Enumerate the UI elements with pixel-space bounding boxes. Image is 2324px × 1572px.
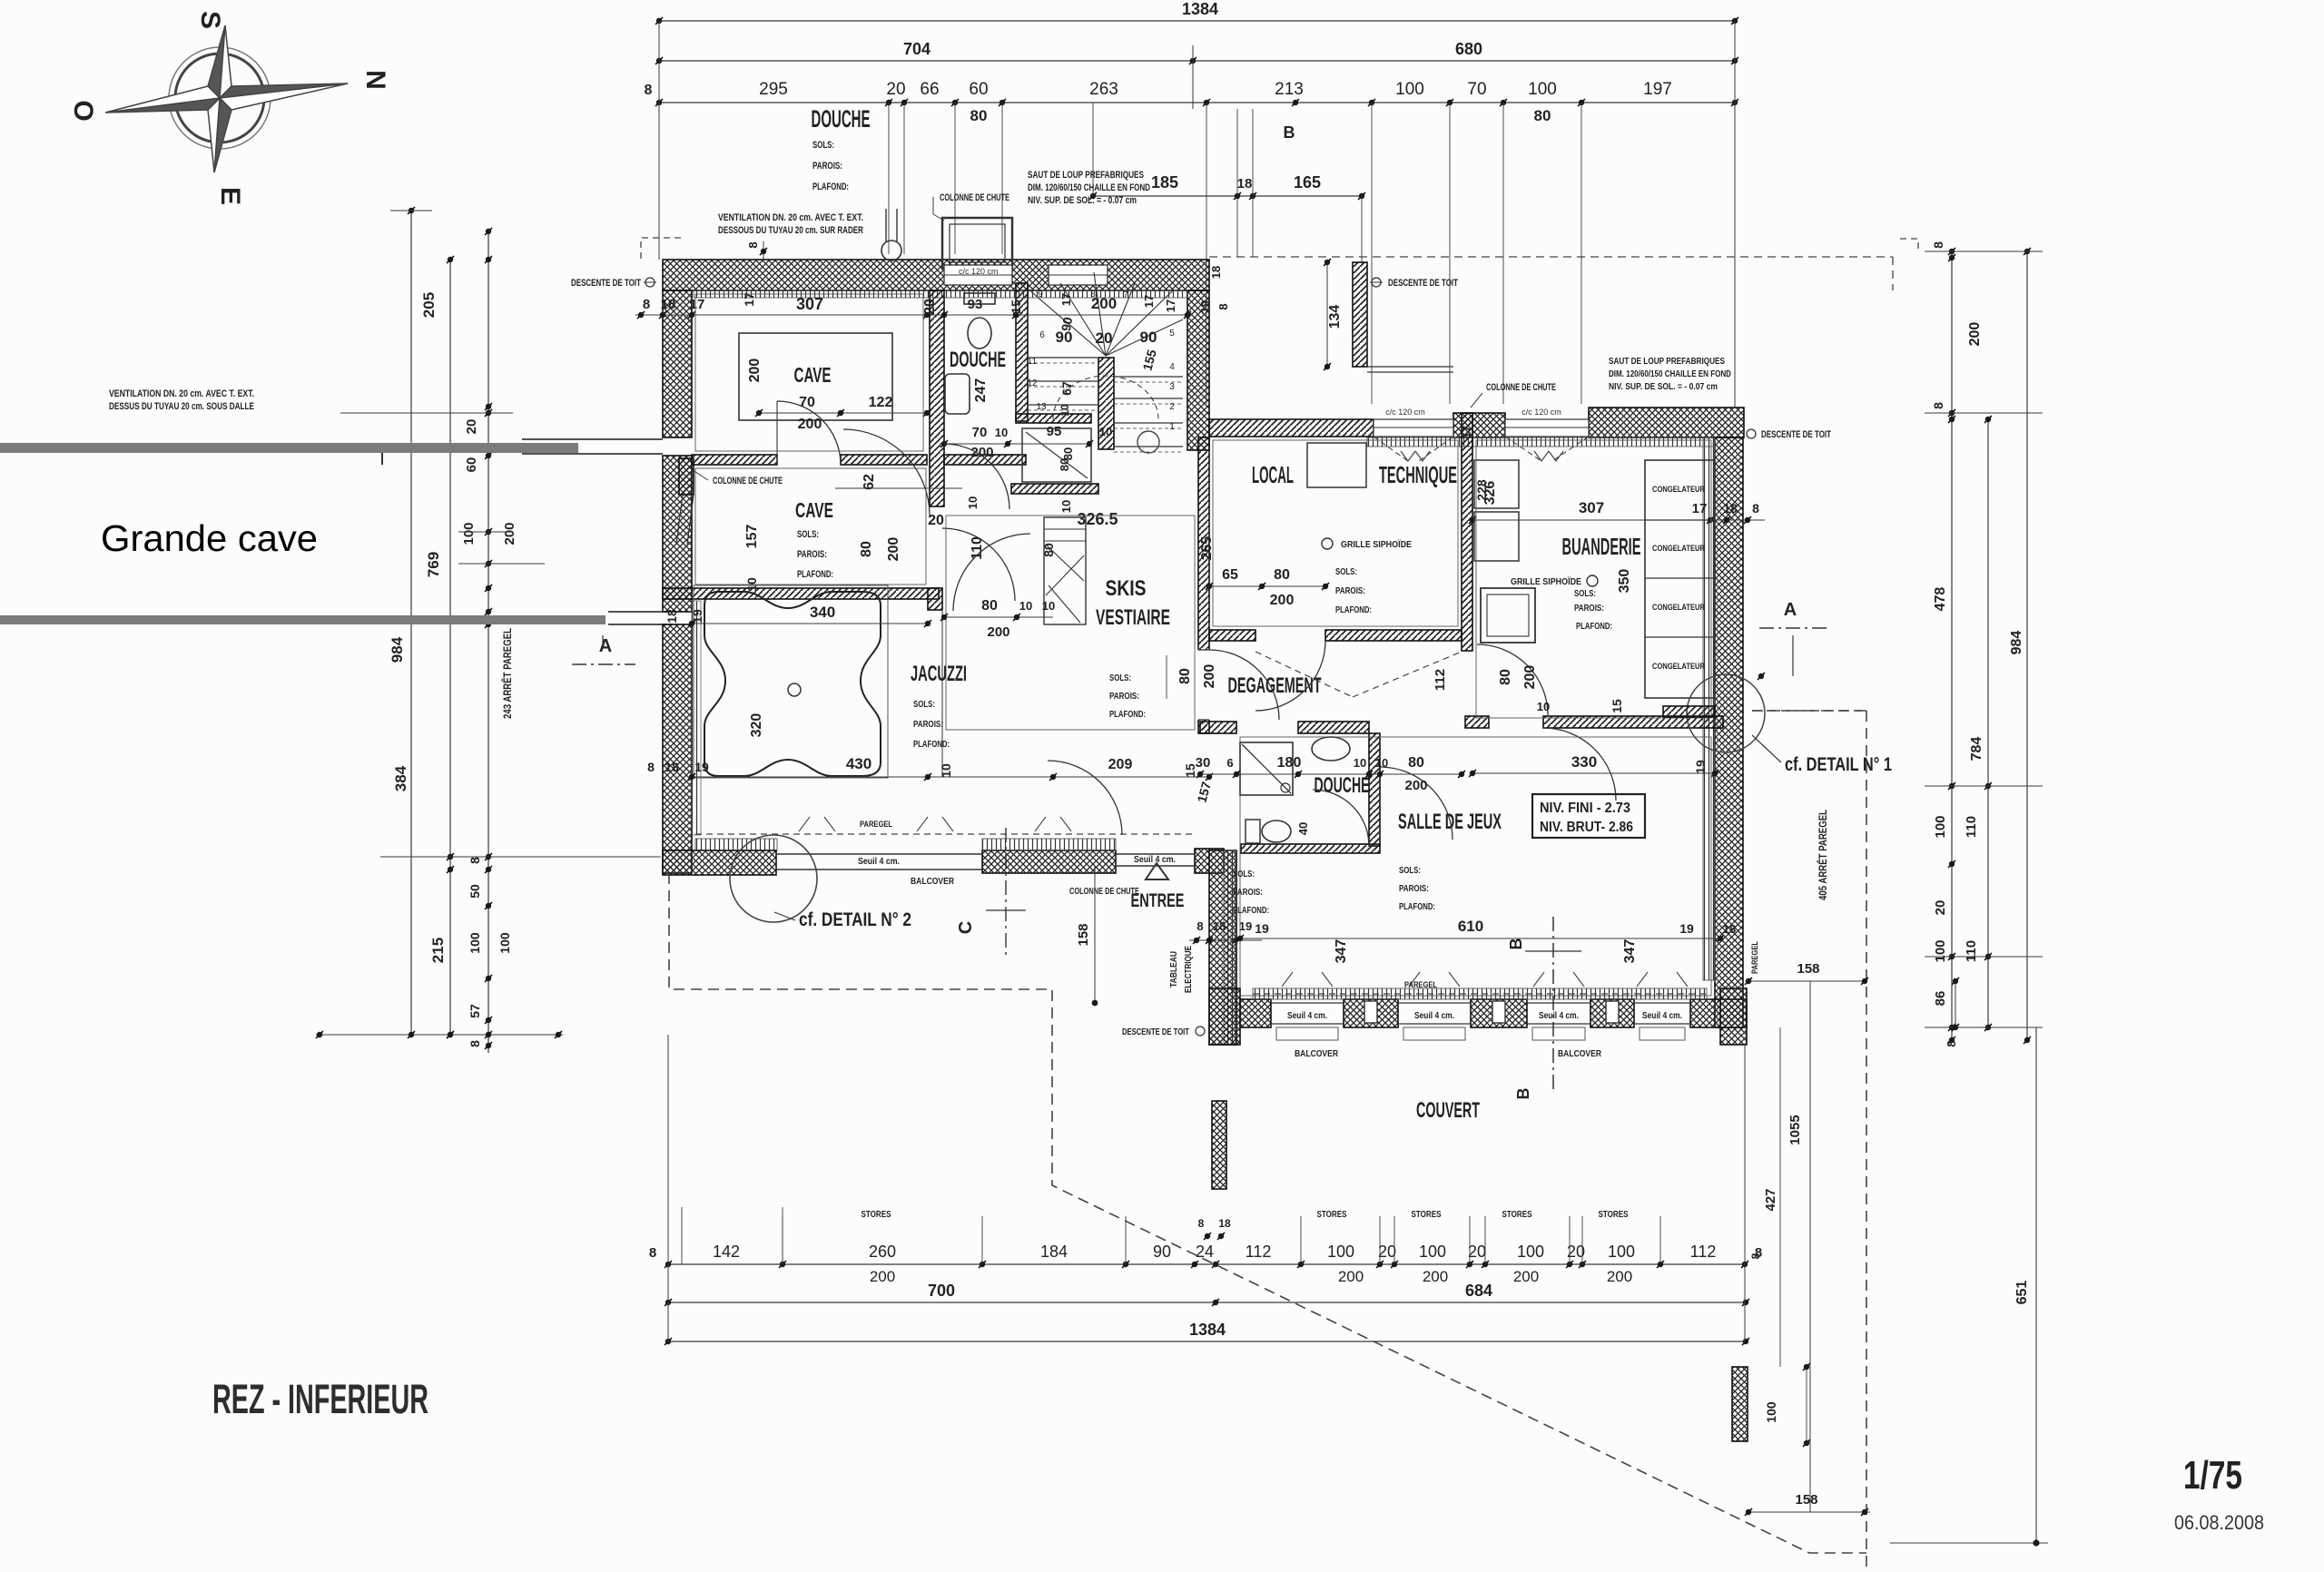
svg-text:67: 67 (1059, 381, 1074, 396)
svg-text:VESTIAIRE: VESTIAIRE (1096, 605, 1170, 630)
svg-text:142: 142 (713, 1243, 740, 1261)
svg-text:PLAFOND:: PLAFOND: (1399, 901, 1435, 912)
svg-text:18: 18 (1723, 501, 1738, 516)
svg-text:340: 340 (810, 604, 835, 621)
svg-text:18: 18 (661, 297, 676, 312)
svg-text:10: 10 (966, 496, 980, 509)
svg-text:197: 197 (1643, 80, 1672, 99)
svg-text:30: 30 (1196, 755, 1211, 771)
svg-text:CONGELATEUR: CONGELATEUR (1652, 485, 1705, 494)
svg-text:17: 17 (1164, 300, 1177, 312)
svg-text:20: 20 (928, 513, 944, 528)
svg-text:122: 122 (869, 395, 893, 410)
svg-text:STORES: STORES (862, 1210, 891, 1220)
svg-text:60: 60 (969, 80, 988, 99)
svg-text:A: A (1784, 600, 1797, 620)
svg-text:SOLS:: SOLS: (1109, 673, 1131, 683)
svg-text:200: 200 (747, 359, 763, 383)
svg-text:PLAFOND:: PLAFOND: (797, 569, 833, 580)
svg-text:B: B (1284, 123, 1295, 142)
svg-text:651: 651 (2014, 1281, 2030, 1305)
svg-text:TABLEAU: TABLEAU (1169, 951, 1179, 987)
svg-text:15: 15 (1009, 300, 1023, 314)
svg-text:DESCENTE DE TOIT: DESCENTE DE TOIT (571, 278, 641, 289)
svg-text:10: 10 (1375, 756, 1388, 770)
svg-text:307: 307 (1579, 499, 1604, 516)
svg-text:Seuil 4 cm.: Seuil 4 cm. (1287, 1011, 1327, 1021)
svg-text:10: 10 (1537, 700, 1550, 713)
svg-text:BUANDERIE: BUANDERIE (1562, 533, 1641, 560)
svg-text:19: 19 (1198, 300, 1212, 313)
svg-text:684: 684 (1465, 1282, 1492, 1300)
svg-text:405 ARRÊT PAREGEL: 405 ARRÊT PAREGEL (1816, 810, 1829, 900)
svg-text:100: 100 (497, 932, 512, 954)
svg-text:PLAFOND:: PLAFOND: (1233, 905, 1269, 916)
svg-text:17: 17 (1460, 426, 1473, 438)
svg-text:SOLS:: SOLS: (1233, 869, 1255, 879)
svg-text:BALCOVER: BALCOVER (1558, 1048, 1601, 1059)
svg-text:200: 200 (987, 624, 1009, 640)
svg-text:62: 62 (862, 474, 877, 490)
svg-text:PAROIS:: PAROIS: (797, 549, 827, 560)
svg-text:SOLS:: SOLS: (1335, 566, 1357, 577)
svg-text:8: 8 (468, 1040, 482, 1047)
svg-text:20: 20 (1378, 1243, 1396, 1261)
svg-text:93: 93 (968, 297, 983, 312)
svg-text:70: 70 (972, 425, 988, 440)
svg-text:209: 209 (1108, 757, 1133, 772)
svg-text:17: 17 (1692, 501, 1708, 516)
svg-text:11: 11 (1028, 357, 1038, 367)
svg-text:1384: 1384 (1182, 0, 1218, 18)
svg-text:STORES: STORES (1412, 1210, 1442, 1220)
svg-text:112: 112 (1690, 1243, 1717, 1261)
svg-text:134: 134 (1327, 305, 1343, 329)
svg-text:180: 180 (1277, 755, 1302, 771)
svg-text:40: 40 (1296, 822, 1310, 835)
svg-text:17: 17 (1059, 293, 1073, 306)
svg-text:50: 50 (468, 884, 482, 899)
svg-text:PLAFOND:: PLAFOND: (1109, 709, 1146, 720)
svg-text:80: 80 (859, 541, 874, 557)
svg-text:347: 347 (1334, 939, 1349, 964)
svg-text:10: 10 (1059, 500, 1073, 513)
svg-text:80: 80 (1177, 668, 1193, 684)
svg-text:680: 680 (1455, 40, 1482, 58)
svg-text:20: 20 (464, 419, 479, 435)
svg-text:165: 165 (1294, 173, 1321, 192)
svg-text:65: 65 (1222, 567, 1238, 583)
svg-text:57: 57 (468, 1004, 482, 1018)
svg-text:Grande cave: Grande cave (101, 517, 318, 559)
svg-text:350: 350 (1617, 569, 1632, 594)
svg-text:COLONNE DE CHUTE: COLONNE DE CHUTE (1069, 886, 1139, 897)
svg-text:4: 4 (1169, 362, 1175, 372)
svg-text:984: 984 (2009, 631, 2024, 655)
svg-text:BALCOVER: BALCOVER (1295, 1048, 1338, 1059)
svg-text:100: 100 (1419, 1243, 1446, 1261)
svg-text:15: 15 (1610, 699, 1624, 713)
svg-text:200: 200 (1967, 322, 1983, 347)
svg-text:110: 110 (1964, 816, 1979, 838)
svg-text:cf. DETAIL N° 2: cf. DETAIL N° 2 (799, 909, 911, 930)
svg-text:80: 80 (981, 598, 998, 614)
svg-text:PAROIS:: PAROIS: (1109, 691, 1139, 702)
svg-text:430: 430 (846, 755, 871, 772)
svg-text:8: 8 (1752, 501, 1759, 516)
svg-text:17: 17 (1142, 295, 1156, 308)
svg-text:66: 66 (920, 80, 939, 99)
svg-text:330: 330 (1571, 753, 1597, 771)
svg-text:6: 6 (1226, 756, 1233, 770)
svg-text:20: 20 (1933, 900, 1948, 916)
svg-text:610: 610 (1458, 918, 1483, 935)
svg-text:SKIS: SKIS (1106, 576, 1147, 601)
svg-text:295: 295 (759, 80, 788, 99)
svg-text:100: 100 (468, 932, 482, 954)
svg-text:704: 704 (903, 40, 931, 58)
svg-text:ELECTRIQUE: ELECTRIQUE (1184, 946, 1194, 993)
svg-text:19: 19 (1255, 921, 1269, 936)
svg-text:19: 19 (1239, 919, 1252, 933)
svg-text:100: 100 (1933, 815, 1948, 838)
svg-text:200: 200 (870, 1268, 895, 1285)
svg-text:DOUCHE: DOUCHE (950, 348, 1006, 372)
svg-text:JACUZZI: JACUZZI (911, 662, 967, 686)
svg-text:326: 326 (1482, 481, 1498, 506)
svg-text:1/75: 1/75 (2183, 1453, 2242, 1498)
svg-text:80: 80 (1498, 669, 1513, 685)
svg-text:10: 10 (1099, 425, 1112, 438)
svg-text:1055: 1055 (1787, 1115, 1803, 1145)
svg-text:265: 265 (1199, 536, 1215, 561)
svg-text:19: 19 (690, 609, 704, 624)
svg-text:158: 158 (1076, 923, 1091, 946)
svg-text:260: 260 (869, 1243, 896, 1261)
svg-text:20: 20 (886, 80, 905, 99)
svg-text:100: 100 (1395, 80, 1424, 99)
svg-text:8: 8 (1198, 1217, 1205, 1230)
svg-text:PAROIS:: PAROIS: (1574, 603, 1604, 614)
svg-text:B: B (1514, 1088, 1532, 1100)
svg-text:10: 10 (1019, 599, 1032, 613)
svg-text:Seuil 4 cm.: Seuil 4 cm. (858, 856, 900, 867)
svg-text:PLAFOND:: PLAFOND: (812, 182, 849, 192)
svg-text:REZ - INFERIEUR: REZ - INFERIEUR (212, 1376, 428, 1422)
svg-text:769: 769 (425, 552, 442, 577)
svg-text:SOLS:: SOLS: (797, 529, 819, 540)
svg-text:PAREGEL: PAREGEL (1750, 941, 1759, 974)
svg-text:70: 70 (1467, 80, 1486, 99)
svg-text:10: 10 (1059, 404, 1071, 417)
svg-text:DESSUS DU TUYAU 20 cm. SOUS DA: DESSUS DU TUYAU 20 cm. SOUS DALLE (109, 401, 254, 412)
svg-text:8: 8 (468, 857, 482, 864)
svg-text:8: 8 (1931, 241, 1945, 249)
svg-text:20: 20 (1468, 1243, 1486, 1261)
svg-text:DOUCHE: DOUCHE (1315, 773, 1370, 798)
svg-text:18: 18 (665, 609, 679, 624)
svg-text:1: 1 (1169, 422, 1175, 432)
svg-text:8: 8 (649, 1245, 656, 1261)
svg-text:GRILLE SIPHOÏDE: GRILLE SIPHOÏDE (1511, 575, 1581, 587)
svg-text:PLAFOND:: PLAFOND: (1335, 604, 1372, 615)
svg-text:CONGELATEUR: CONGELATEUR (1652, 603, 1705, 612)
svg-text:247: 247 (973, 378, 989, 403)
svg-text:200: 200 (1607, 1268, 1632, 1285)
svg-text:200: 200 (798, 417, 822, 432)
svg-text:10: 10 (1354, 756, 1366, 770)
svg-text:112: 112 (1246, 1243, 1272, 1261)
svg-text:06.08.2008: 06.08.2008 (2174, 1511, 2264, 1534)
svg-text:8: 8 (1196, 919, 1203, 933)
svg-text:200: 200 (1202, 664, 1217, 689)
svg-text:STORES: STORES (1599, 1210, 1629, 1220)
svg-text:8: 8 (1931, 402, 1945, 409)
svg-text:10: 10 (1042, 599, 1055, 613)
svg-text:784: 784 (1969, 737, 1984, 761)
svg-text:213: 213 (1275, 80, 1304, 99)
svg-text:80: 80 (1534, 107, 1551, 124)
svg-text:STORES: STORES (1502, 1210, 1532, 1220)
svg-text:19: 19 (694, 760, 709, 774)
svg-text:PLAFOND:: PLAFOND: (1576, 621, 1612, 632)
svg-text:DESCENTE DE TOIT: DESCENTE DE TOIT (1122, 1027, 1189, 1037)
svg-text:5: 5 (1169, 329, 1175, 339)
svg-text:Seuil 4 cm.: Seuil 4 cm. (1414, 1011, 1454, 1021)
svg-text:90: 90 (1140, 329, 1157, 346)
svg-text:CAVE: CAVE (795, 498, 833, 522)
svg-text:LOCAL: LOCAL (1252, 461, 1294, 488)
svg-text:CONGELATEUR: CONGELATEUR (1652, 662, 1705, 671)
svg-text:8: 8 (1216, 303, 1230, 309)
svg-text:18: 18 (1237, 176, 1253, 192)
svg-text:E: E (215, 187, 245, 205)
svg-text:18: 18 (1209, 266, 1223, 279)
svg-text:cf. DETAIL N° 1: cf. DETAIL N° 1 (1785, 754, 1892, 775)
svg-text:100: 100 (1517, 1243, 1544, 1261)
svg-text:Seuil 4 cm.: Seuil 4 cm. (1642, 1011, 1682, 1021)
svg-text:20: 20 (1096, 329, 1113, 347)
svg-text:80: 80 (970, 107, 988, 124)
svg-text:c/c 120 cm: c/c 120 cm (1521, 408, 1561, 417)
svg-text:8: 8 (1090, 290, 1096, 300)
svg-text:O: O (68, 100, 98, 121)
svg-text:NIV. BRUT- 2.86: NIV. BRUT- 2.86 (1540, 820, 1633, 835)
svg-text:100: 100 (1608, 1243, 1635, 1261)
svg-text:NIV. FINI - 2.73: NIV. FINI - 2.73 (1540, 801, 1630, 816)
svg-text:3: 3 (1169, 382, 1175, 392)
svg-text:100: 100 (1327, 1243, 1354, 1261)
svg-text:COLONNE DE CHUTE: COLONNE DE CHUTE (713, 476, 783, 486)
svg-text:2: 2 (1169, 402, 1175, 412)
svg-text:VENTILATION DN. 20 cm. AVEC T.: VENTILATION DN. 20 cm. AVEC T. EXT. (718, 212, 863, 223)
svg-text:c/c 120 cm: c/c 120 cm (959, 267, 999, 276)
svg-text:10: 10 (939, 763, 953, 778)
svg-text:SOLS:: SOLS: (913, 699, 935, 710)
svg-text:1384: 1384 (1189, 1321, 1226, 1339)
svg-text:24: 24 (1196, 1243, 1214, 1261)
svg-text:347: 347 (1622, 939, 1638, 964)
svg-text:200: 200 (1270, 593, 1295, 608)
svg-text:200: 200 (1423, 1268, 1448, 1285)
svg-text:DESSOUS DU TUYAU 20 cm. SUR RA: DESSOUS DU TUYAU 20 cm. SUR RADER (718, 225, 863, 236)
svg-text:BALCOVER: BALCOVER (911, 876, 954, 887)
svg-text:A: A (599, 636, 612, 656)
svg-text:17: 17 (690, 297, 705, 312)
svg-text:100: 100 (1528, 80, 1557, 99)
svg-text:SAUT DE LOUP PREFABRIQUES: SAUT DE LOUP PREFABRIQUES (1609, 356, 1725, 367)
svg-text:158: 158 (1797, 961, 1819, 977)
svg-text:8: 8 (1945, 1040, 1958, 1046)
svg-text:7: 7 (1123, 290, 1128, 300)
svg-text:215: 215 (429, 938, 447, 963)
svg-text:90: 90 (1153, 1243, 1171, 1261)
svg-text:PLAFOND:: PLAFOND: (913, 739, 950, 750)
svg-text:SOLS:: SOLS: (1399, 865, 1421, 876)
svg-text:200: 200 (886, 537, 901, 562)
svg-text:CONGELATEUR: CONGELATEUR (1652, 544, 1705, 553)
svg-text:12: 12 (1027, 378, 1038, 388)
svg-text:SOLS:: SOLS: (812, 140, 834, 151)
svg-text:PAROIS:: PAROIS: (1399, 883, 1429, 894)
svg-text:185: 185 (1151, 173, 1178, 192)
svg-text:PAROIS:: PAROIS: (1233, 887, 1263, 898)
svg-text:8: 8 (746, 241, 760, 248)
svg-text:158: 158 (1795, 1492, 1817, 1508)
svg-text:100: 100 (1933, 939, 1948, 962)
svg-text:200: 200 (1338, 1268, 1364, 1285)
svg-text:984: 984 (389, 636, 406, 663)
svg-text:80: 80 (1041, 543, 1056, 557)
svg-text:80: 80 (1408, 755, 1424, 771)
svg-text:13: 13 (1036, 402, 1047, 412)
svg-text:307: 307 (796, 295, 823, 313)
svg-text:PAROIS:: PAROIS: (913, 719, 943, 730)
svg-text:200: 200 (502, 522, 517, 545)
svg-text:700: 700 (928, 1282, 955, 1300)
svg-text:COLONNE DE CHUTE: COLONNE DE CHUTE (1486, 382, 1556, 393)
svg-text:80: 80 (1274, 567, 1290, 583)
svg-text:STORES: STORES (1317, 1210, 1347, 1220)
svg-text:PAROIS:: PAROIS: (812, 161, 842, 172)
svg-text:110: 110 (1964, 940, 1979, 962)
svg-text:384: 384 (392, 765, 409, 791)
svg-text:Seuil 4 cm.: Seuil 4 cm. (1134, 854, 1176, 865)
svg-text:427: 427 (1763, 1188, 1778, 1211)
svg-text:c/c 120 cm: c/c 120 cm (1385, 408, 1425, 417)
svg-text:8: 8 (1755, 1245, 1762, 1261)
svg-text:NIV. SUP. DE SOL. = - 0.07 cm: NIV. SUP. DE SOL. = - 0.07 cm (1609, 381, 1718, 392)
svg-text:C: C (956, 921, 976, 934)
svg-text:B: B (1507, 938, 1525, 950)
svg-text:18: 18 (665, 760, 679, 774)
svg-text:8: 8 (647, 760, 655, 774)
svg-text:TECHNIQUE: TECHNIQUE (1379, 461, 1457, 488)
svg-text:326.5: 326.5 (1077, 510, 1118, 528)
svg-text:200: 200 (1522, 665, 1538, 690)
svg-text:COLONNE DE CHUTE: COLONNE DE CHUTE (940, 192, 1009, 203)
svg-text:N: N (360, 70, 390, 90)
svg-text:200: 200 (970, 445, 993, 460)
svg-text:90: 90 (1059, 316, 1075, 332)
svg-text:NIV. SUP. DE SOL. = - 0.07 cm: NIV. SUP. DE SOL. = - 0.07 cm (1028, 195, 1137, 206)
svg-text:VENTILATION DN. 20 cm. AVEC T.: VENTILATION DN. 20 cm. AVEC T. EXT. (109, 388, 254, 399)
svg-text:112: 112 (1433, 669, 1448, 691)
svg-text:DEGAGEMENT: DEGAGEMENT (1228, 673, 1322, 698)
svg-text:SAUT DE LOUP PREFABRIQUES: SAUT DE LOUP PREFABRIQUES (1028, 170, 1144, 181)
svg-text:184: 184 (1040, 1243, 1068, 1261)
svg-text:COUVERT: COUVERT (1416, 1098, 1480, 1123)
svg-text:DESCENTE DE TOIT: DESCENTE DE TOIT (1761, 429, 1831, 440)
svg-text:6: 6 (1039, 330, 1045, 340)
svg-text:DIM. 120/60/150 CHAILLE EN FON: DIM. 120/60/150 CHAILLE EN FOND (1028, 182, 1150, 193)
svg-text:SOLS:: SOLS: (1574, 588, 1596, 599)
svg-text:263: 263 (1089, 80, 1118, 99)
svg-text:95: 95 (1047, 424, 1062, 439)
svg-text:8: 8 (645, 83, 653, 98)
svg-text:200: 200 (1513, 1268, 1539, 1285)
svg-text:157: 157 (744, 525, 760, 549)
svg-text:CAVE: CAVE (794, 363, 832, 387)
svg-text:100: 100 (1764, 1401, 1778, 1423)
svg-text:205: 205 (420, 292, 438, 318)
svg-text:100: 100 (461, 522, 477, 545)
svg-text:8: 8 (643, 297, 650, 312)
svg-text:18: 18 (1218, 1217, 1231, 1230)
svg-text:243 ARRÊT PAREGEL: 243 ARRÊT PAREGEL (500, 628, 514, 719)
svg-text:18: 18 (1723, 922, 1736, 936)
svg-text:478: 478 (1933, 587, 1948, 612)
svg-text:PAREGEL: PAREGEL (860, 820, 892, 829)
svg-text:DOUCHE: DOUCHE (812, 105, 871, 133)
svg-text:320: 320 (749, 713, 764, 738)
svg-text:80: 80 (1058, 458, 1071, 471)
svg-text:DESCENTE DE TOIT: DESCENTE DE TOIT (1388, 278, 1458, 289)
svg-text:S: S (195, 11, 225, 29)
svg-text:19: 19 (1693, 760, 1708, 774)
svg-text:19: 19 (1679, 921, 1694, 936)
svg-text:Seuil 4 cm.: Seuil 4 cm. (1539, 1011, 1579, 1021)
svg-text:GRILLE SIPHOÏDE: GRILLE SIPHOÏDE (1341, 538, 1412, 550)
svg-text:9: 9 (1038, 290, 1043, 300)
svg-text:86: 86 (1933, 991, 1948, 1007)
svg-text:200: 200 (1404, 778, 1427, 793)
svg-text:PAROIS:: PAROIS: (1335, 585, 1365, 596)
svg-text:10: 10 (995, 426, 1008, 439)
svg-text:DIM. 120/60/150 CHAILLE EN FON: DIM. 120/60/150 CHAILLE EN FOND (1609, 368, 1731, 379)
svg-text:60: 60 (464, 457, 479, 473)
svg-text:PAREGEL: PAREGEL (1404, 980, 1437, 989)
